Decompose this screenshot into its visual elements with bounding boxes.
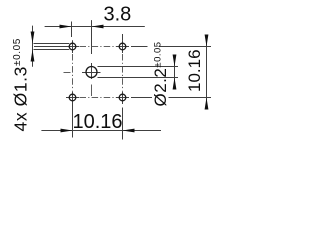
hole H4 (bottom-right Ø1.3) — [119, 94, 126, 101]
big hole cross tick vertical — [91, 63, 93, 79]
right 10.16 dimension vertical line — [206, 37, 208, 108]
svg-text:3.8: 3.8 — [104, 4, 132, 26]
dimension 3.8 line — [45, 26, 145, 28]
hole H2 cross tick horizontal — [116, 46, 129, 48]
left dimension vertical line (4x Ø1.3) — [32, 26, 34, 67]
arrowhead Ø2.2 top (points down) — [173, 55, 177, 67]
arrowhead Ø1.3 bottom (points up) — [31, 50, 35, 62]
row 1 centre line between holes — [80, 46, 117, 48]
Ø2.2 bottom tangent extension line — [98, 77, 179, 79]
hole H3 (bottom-left Ø1.3) — [69, 94, 76, 101]
svg-text:10.16: 10.16 — [72, 111, 122, 133]
extension tick column A (left hole column, above) — [71, 22, 73, 38]
row 2 centre line right of hole H4 — [131, 97, 152, 99]
row 1 centre line left part — [34, 46, 67, 48]
bottom dimension line — [41, 130, 161, 132]
column A extension below hole H3 — [72, 104, 74, 138]
hole H1 cross tick horizontal — [66, 46, 79, 48]
extension tick column B (big hole column, above) — [91, 20, 93, 54]
arrowhead bottom 10.16 right (points left) — [123, 129, 135, 133]
hole H1 bottom tangent extension line — [34, 49, 70, 51]
big hole column dash below circle — [91, 85, 93, 97]
arrowhead right 10.16 top (points down) — [205, 35, 209, 47]
Ø2.2 top tangent extension line — [98, 66, 179, 68]
hole H3 cross tick vertical — [72, 91, 74, 104]
column B extension below hole H4 — [122, 108, 124, 140]
row 1 extension line to right dimension — [159, 46, 212, 48]
arrowhead 3.8 left (points right) — [60, 25, 72, 29]
hole H1 cross tick vertical — [72, 40, 74, 53]
hole H2 cross tick vertical — [122, 40, 124, 53]
big hole Ø2.2 — [86, 67, 97, 78]
column B (right holes) top stub — [122, 34, 124, 40]
row 2 extension line to right dimension — [169, 97, 212, 99]
Ø2.2 dimension vertical line — [174, 56, 176, 89]
hole H1 top tangent extension line — [34, 43, 70, 45]
arrowhead 3.8 right (points left) — [92, 25, 104, 29]
arrowhead right 10.16 bottom (points up) — [205, 98, 209, 110]
arrowhead Ø2.2 bottom (points up) — [173, 78, 177, 90]
arrowhead bottom 10.16 left (points right) — [61, 129, 73, 133]
arrowhead Ø1.3 top (points down) — [31, 32, 35, 44]
hole H4 cross tick horizontal — [116, 97, 129, 99]
column A dash-dot between holes — [72, 54, 74, 91]
big hole horizontal centre line left dash — [64, 72, 71, 74]
hole H2 (top-right Ø1.3) — [119, 43, 126, 50]
big hole cross tick horizontal — [82, 72, 101, 74]
row 2 centre line between holes — [80, 97, 117, 99]
hole H1 (top-left Ø1.3) — [69, 43, 76, 50]
svg-text:10.16: 10.16 — [185, 49, 204, 92]
hole H4 cross tick vertical — [122, 91, 124, 104]
row 1 centre line right of hole H2 — [131, 46, 148, 48]
column B dash-dot between holes — [122, 54, 124, 91]
hole H3 cross tick horizontal — [66, 97, 79, 99]
